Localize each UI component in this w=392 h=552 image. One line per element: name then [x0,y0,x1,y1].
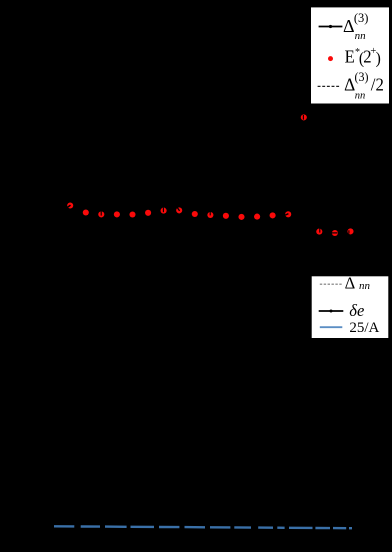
svg-text:Δ: Δ [343,16,355,36]
point 4 [114,211,120,217]
svg-text:E: E [345,47,355,66]
svg-text:nn: nn [355,30,367,42]
legend2 entry3 blue line marker [320,326,343,328]
svg-text:(3): (3) [355,70,369,84]
svg-text:δe: δe [349,301,364,320]
point 17 [316,229,322,235]
25/A blue dashed curve at bottom [54,526,352,528]
legend1 entry3 label Delta_nn^(3)/2 [344,70,384,101]
legend1 entry2 label E*(2+) [345,45,381,68]
point 9 [192,211,198,217]
point 19 [347,228,353,234]
legend1 entry1 line marker (solid with dot) [319,25,343,28]
point 1 [67,202,73,208]
point 6 [145,210,151,216]
svg-text:25/A: 25/A [349,320,379,336]
svg-text:Δ: Δ [345,274,356,293]
point 5 [129,211,135,217]
black curve notches over red points [67,115,349,234]
point 3 [98,211,104,217]
legend2 entry1 label Delta_nn [345,274,371,293]
svg-text:(3): (3) [354,11,369,25]
legend1 entry1 label Delta_nn^(3) [343,11,368,42]
point 11 [223,213,229,219]
point 10 [207,212,213,218]
legend1 entry3 dashed line marker [318,85,341,87]
point 18 [332,230,338,236]
svg-text:/2: /2 [371,75,384,94]
point 2 [83,209,89,215]
point 12 [238,214,244,220]
legend box 2 (middle right) [311,276,389,339]
legend box 1 (top right) [311,7,390,104]
legend2 entry1 dashed gray line marker [320,283,343,285]
svg-text:Δ: Δ [344,74,355,94]
point 16 (high E* point) [301,114,307,120]
point 15 [285,211,291,217]
point 13 [254,214,260,220]
point 14 [270,212,276,218]
legend2 entry2 line marker (solid with dot) [319,310,344,313]
svg-text:nn: nn [355,89,366,101]
svg-text:): ) [376,50,381,67]
E*(2+) red data points [67,114,353,236]
point 7 [161,208,167,214]
legend1 entry2 marker red dot [328,56,333,61]
point 8 [176,207,182,213]
svg-text:nn: nn [359,280,371,292]
